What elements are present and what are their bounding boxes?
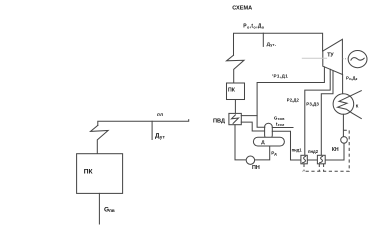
svg-text:пнд1: пнд1 [292, 148, 303, 153]
boiler PK (right) [227, 83, 245, 100]
wire: dashed stub pnd2 a [318, 164, 320, 171]
svg-text:Рк,Дк: Рк,Дк [346, 76, 358, 82]
svg-text:КН: КН [332, 147, 339, 153]
condenser K [333, 94, 354, 115]
wire: stub Dut [262, 33, 264, 46]
pump PN [246, 156, 254, 164]
wire: feed water pump PN to PVD [235, 125, 246, 160]
svg-text:Ро,tо,До: Ро,tо,До [243, 24, 264, 30]
heater pnd1 [301, 155, 307, 164]
boiler PK (left) [77, 154, 123, 194]
deaerator tank D [253, 137, 284, 146]
svg-text:К: К [356, 104, 359, 109]
wire: condensate between heaters [307, 159, 317, 161]
wire: dashed drain loop [303, 130, 350, 171]
svg-text:Р2,Д2: Р2,Д2 [287, 98, 300, 103]
wire: extraction 1 steam into PVD [241, 115, 257, 117]
gray construction line [302, 57, 327, 59]
wire: extraction 1 (P1,D1) [257, 67, 324, 127]
svg-text:Gхов: Gхов [274, 115, 285, 121]
wire: PK to PVD [234, 100, 236, 114]
heater pnd2 [317, 155, 325, 164]
wire: stub to Dut [151, 121, 153, 139]
wire: PVD drain to deaerator [241, 122, 264, 131]
svg-text:Р3,Д3: Р3,Д3 [306, 101, 319, 106]
shaft dotted [342, 58, 348, 60]
svg-text:СХЕМА: СХЕМА [232, 5, 252, 11]
wire: extraction 2 (P2,D2) to pnd1 [305, 69, 330, 155]
svg-text:Дут: Дут [155, 133, 166, 140]
wire: condenser bottom to pump KN [342, 114, 344, 136]
wire: dashed stub pnd1 [303, 164, 305, 171]
wire: feed water down [98, 193, 100, 224]
svg-text:Рд: Рд [271, 150, 277, 156]
svg-text:пп: пп [157, 112, 163, 117]
wire: left steam header [98, 120, 189, 126]
break symbol (lightning) left [91, 125, 109, 153]
wire: main steam header [234, 33, 323, 55]
wire: condenser to KN to pnd2 [342, 75, 344, 94]
generator G [348, 51, 367, 68]
pump KN [341, 137, 348, 144]
heater PVD box [229, 113, 241, 124]
wire: deaerator tank to pump [255, 146, 270, 160]
wire: extraction 3 (P3,D3) to pnd2 [321, 71, 333, 156]
svg-text:Дут.: Дут. [267, 41, 277, 48]
wire: dashed stub pnd2 b [323, 164, 325, 171]
svg-text:Gпв: Gпв [104, 207, 115, 214]
wire: makeup water Ghov [272, 127, 293, 129]
svg-text:ПН: ПН [252, 165, 260, 171]
svg-text:’Р1,Д1: ’Р1,Д1 [272, 73, 288, 78]
break symbol (lightning) right [227, 55, 245, 83]
turbine TU [323, 39, 343, 74]
deaerator column [265, 123, 273, 139]
svg-text:ТУ: ТУ [327, 53, 334, 59]
svg-text:tхов: tхов [276, 122, 285, 128]
svg-text:ПВД: ПВД [213, 118, 225, 124]
svg-text:пнд2: пнд2 [308, 149, 319, 154]
svg-text:ПК: ПК [84, 169, 94, 176]
wire: main condensate line [325, 143, 344, 160]
svg-text:ПК: ПК [228, 88, 236, 94]
wire: condensate pnd1 to deaerator [272, 131, 301, 160]
